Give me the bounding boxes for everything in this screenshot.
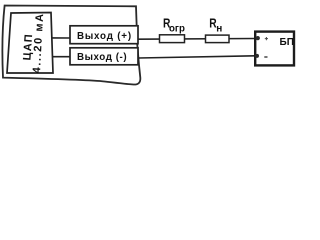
svg-text:БП: БП	[280, 37, 294, 48]
svg-text:Выход (-): Выход (-)	[77, 52, 127, 63]
svg-text:Выход (+): Выход (+)	[77, 31, 132, 42]
svg-text:н: н	[216, 23, 222, 34]
svg-text:огр: огр	[169, 23, 185, 34]
